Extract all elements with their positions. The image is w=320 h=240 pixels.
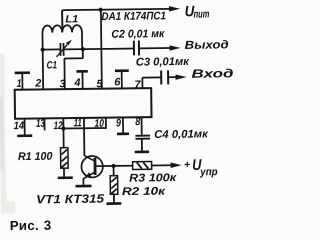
resistor R2 <box>110 176 118 195</box>
wire: junction down to R2 <box>113 166 115 176</box>
capacitor C1 arrow <box>56 40 72 57</box>
ground below pin 9 <box>117 132 129 135</box>
pin 8 stub down to C4 <box>141 117 143 135</box>
wire: C2 to output arrow <box>140 47 170 49</box>
node: rail junction dot <box>98 8 102 12</box>
svg-text:6: 6 <box>114 76 121 88</box>
svg-text:упр: упр <box>199 166 218 178</box>
node: tank right junction dot <box>81 47 85 51</box>
svg-text:R3 100к: R3 100к <box>129 172 178 185</box>
pin 11 stub down to VT1 collector <box>83 118 85 156</box>
op-amp U1: IC DA1 body <box>15 88 152 119</box>
wire: L1 tap to rail <box>61 10 63 31</box>
svg-text:8: 8 <box>135 116 140 128</box>
wire: vertical from rail to pin 5 <box>100 10 103 89</box>
ground below pin 14 <box>17 134 32 137</box>
ground above pin 1 <box>15 71 30 74</box>
pin 10 stub <box>105 118 107 129</box>
wire: pin 7 up and right to C3 <box>142 77 160 88</box>
ground below R1 <box>58 176 73 179</box>
svg-text:7: 7 <box>134 79 141 91</box>
label +Uупр <box>184 157 218 179</box>
pin 2 stub <box>42 50 45 90</box>
svg-text:1: 1 <box>17 78 22 90</box>
ground above pin 4 <box>76 70 87 73</box>
svg-text:14: 14 <box>14 120 25 132</box>
ground above pin 6 <box>115 69 129 72</box>
arrow: Uпит terminal <box>169 6 180 12</box>
svg-text:Рис.: Рис. <box>10 218 39 233</box>
svg-text:3: 3 <box>44 218 52 233</box>
svg-text:L1: L1 <box>65 13 78 25</box>
wire: +Uпит power rail <box>62 9 169 27</box>
capacitor C2 plates <box>134 41 139 56</box>
capacitor C4 plates <box>135 136 150 139</box>
ground below R2 <box>107 202 122 205</box>
svg-text:Вход: Вход <box>191 66 233 81</box>
svg-text:R2 10к: R2 10к <box>122 186 167 199</box>
svg-text:13: 13 <box>36 118 45 130</box>
ground below VT1 emitter <box>75 185 91 188</box>
wire: pin 12 junction to pin 10 <box>63 127 105 130</box>
arrow: Выход terminal <box>170 45 181 51</box>
resistor R1 <box>61 148 69 169</box>
wire: VT1 base lead to R3 <box>96 165 132 167</box>
svg-text:Выход: Выход <box>185 39 229 52</box>
svg-text:2: 2 <box>34 78 41 90</box>
node: base junction dot <box>111 164 115 168</box>
pin 13 stub <box>43 118 45 130</box>
ground below C4 <box>135 151 149 154</box>
wire: jog from tank right down to pin 3 <box>64 49 83 89</box>
svg-text:4: 4 <box>73 77 80 89</box>
svg-text:11: 11 <box>74 117 82 129</box>
pin 6 stub <box>121 72 123 89</box>
arrow: Вход terminal <box>175 74 186 80</box>
wire: R2 to ground <box>113 194 115 202</box>
wire: tank top wire left segment <box>43 48 60 50</box>
svg-text:VT1 КТ315: VT1 КТ315 <box>36 192 105 207</box>
svg-text:3: 3 <box>59 78 65 90</box>
wire: tank top wire right segment to C2 branch <box>64 48 133 51</box>
pin 12 stub and wire down to R1 <box>62 118 64 147</box>
wire: C3 to input arrow <box>169 76 176 78</box>
caption Рис. 3 <box>10 218 52 234</box>
wire: VT1 emitter to ground <box>82 178 84 184</box>
pin 9 stub <box>122 117 124 132</box>
svg-text:пит: пит <box>193 8 209 20</box>
svg-text:+: + <box>184 159 190 171</box>
arrow: +Uупр terminal <box>171 162 182 168</box>
transistor VT1 <box>81 155 103 178</box>
wire: C4 to ground <box>141 140 143 151</box>
wire: R3 to Uупр arrow <box>152 164 171 166</box>
svg-text:R1 100: R1 100 <box>18 151 53 163</box>
pin 14 stub <box>24 119 26 135</box>
capacitor C1 (variable) plates <box>60 43 63 56</box>
svg-text:C1: C1 <box>46 59 57 71</box>
svg-text:С3 0,01мк: С3 0,01мк <box>136 56 190 69</box>
pin 4 stub <box>81 72 83 89</box>
node: tank left junction dot <box>41 48 45 52</box>
inductor L1 <box>42 25 82 50</box>
scan smudge left edge <box>0 53 15 213</box>
svg-text:12: 12 <box>54 120 63 132</box>
pin 1 stub <box>21 74 23 90</box>
resistor R3 <box>133 161 152 169</box>
node: pin 12 junction dot <box>61 126 65 130</box>
label Uпит <box>185 3 210 21</box>
svg-text:9: 9 <box>116 117 121 129</box>
svg-text:DA1 К174ПС1: DA1 К174ПС1 <box>101 10 166 23</box>
svg-text:C4 0,01мк: C4 0,01мк <box>154 128 209 141</box>
svg-text:10: 10 <box>94 118 104 130</box>
svg-text:C2 0,01 мк: C2 0,01 мк <box>111 28 165 41</box>
wire: R1 to ground <box>63 168 65 177</box>
capacitor C3 plates <box>161 70 168 84</box>
